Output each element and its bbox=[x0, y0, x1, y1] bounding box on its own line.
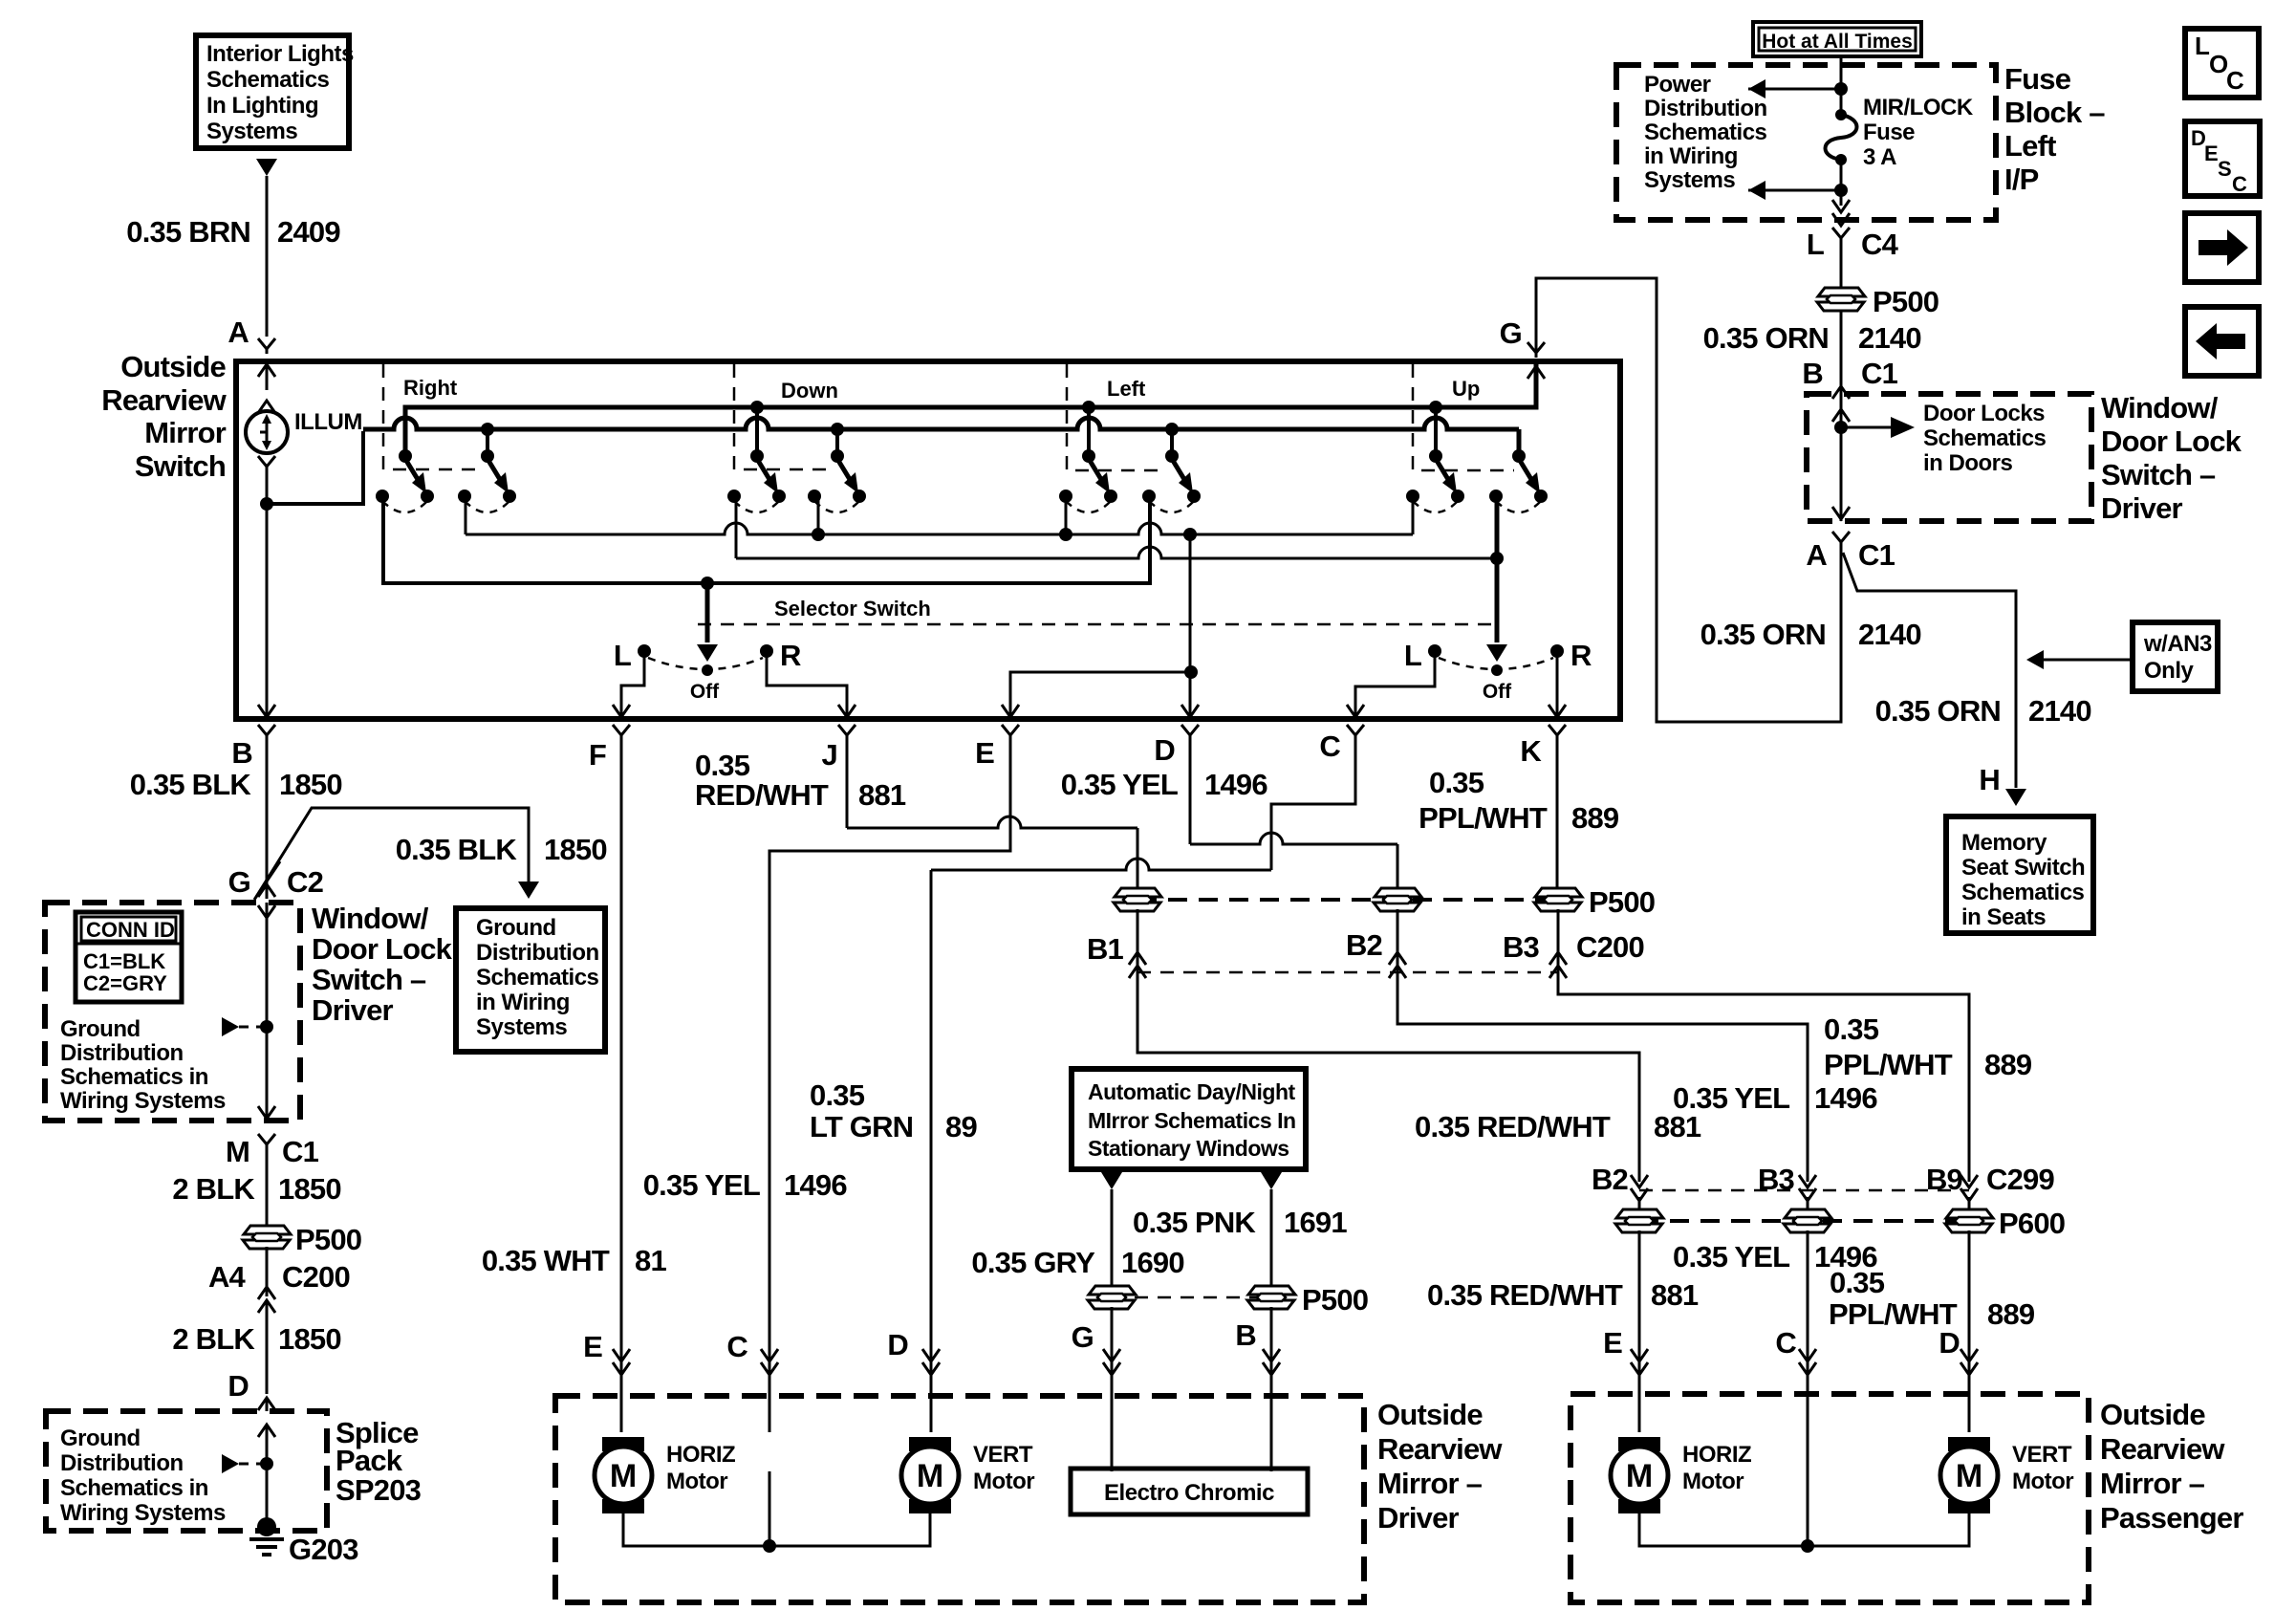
svg-text:0.35 ORN: 0.35 ORN bbox=[1703, 321, 1829, 355]
arrow from w/AN3 box to ORN wire bbox=[2044, 659, 2133, 662]
wire PPL/WHT 889: pin K straight to B3 bbox=[1556, 740, 1559, 893]
svg-text:B3: B3 bbox=[1503, 930, 1540, 964]
label Outside Rearview Mirror - Passenger bbox=[2100, 1398, 2243, 1535]
distribution arrow upper bbox=[1748, 79, 1765, 98]
label Window/ Door Lock Switch - Driver (top right) bbox=[2101, 391, 2242, 525]
svg-text:2140: 2140 bbox=[2028, 694, 2091, 728]
dashed box: Outside Rearview Mirror - Driver bbox=[555, 1396, 1364, 1602]
pin D drop wire bbox=[1189, 534, 1192, 715]
svg-text:1850: 1850 bbox=[544, 833, 607, 866]
svg-text:In Lighting: In Lighting bbox=[206, 93, 318, 119]
svg-text:Up: Up bbox=[1452, 377, 1480, 401]
svg-text:Door Lock: Door Lock bbox=[2101, 425, 2242, 458]
wire to P500 bbox=[1840, 241, 1843, 396]
svg-text:0.35 PNK: 0.35 PNK bbox=[1133, 1206, 1256, 1239]
svg-text:VERT: VERT bbox=[2012, 1442, 2072, 1468]
svg-text:in Wiring: in Wiring bbox=[476, 990, 570, 1015]
svg-text:L: L bbox=[1807, 228, 1824, 261]
inline connector P500 (fuse feed) bbox=[1817, 288, 1865, 311]
svg-text:LT GRN: LT GRN bbox=[810, 1110, 913, 1143]
svg-text:B2: B2 bbox=[1346, 928, 1382, 962]
wire: right selector L to pin C bbox=[1355, 651, 1435, 715]
svg-text:C4: C4 bbox=[1861, 228, 1899, 261]
svg-text:E: E bbox=[975, 736, 994, 770]
terminal L | C4 bbox=[1832, 228, 1850, 243]
svg-text:Distribution: Distribution bbox=[476, 940, 599, 966]
svg-text:881: 881 bbox=[1651, 1278, 1699, 1312]
svg-text:C2: C2 bbox=[287, 865, 323, 899]
svg-text:2140: 2140 bbox=[1858, 321, 1921, 355]
svg-text:Ground: Ground bbox=[476, 915, 556, 941]
svg-text:Left: Left bbox=[2004, 129, 2056, 163]
left selector contacts L / Off / R bbox=[638, 644, 651, 658]
dashed box: Outside Rearview Mirror - Passenger bbox=[1570, 1394, 2089, 1602]
wire RED/WHT 881: pin J to B1 column (hop over E wire) bbox=[846, 740, 849, 828]
dashed boundary: Up switch section bbox=[1413, 364, 1514, 470]
svg-text:M: M bbox=[610, 1458, 637, 1494]
wire 0.35 WHT 81: pin F to driver mirror HORIZ motor bbox=[620, 740, 623, 1432]
pin G entry arrow bbox=[1527, 366, 1545, 379]
dashed boundary: Down switch section bbox=[734, 364, 834, 469]
svg-text:Seat Switch: Seat Switch bbox=[1961, 855, 2085, 881]
pointer arrow to splice wire bbox=[222, 1454, 239, 1473]
reference box: Hot at All Times bbox=[1753, 22, 1921, 56]
wire RED/WHT 881: B1 to passenger E column bbox=[1137, 977, 1639, 1182]
wire: left selector L to pin F bbox=[621, 651, 644, 715]
svg-text:2 BLK: 2 BLK bbox=[172, 1172, 255, 1206]
svg-text:0.35 BLK: 0.35 BLK bbox=[130, 768, 252, 801]
junction node at lamp return bbox=[260, 497, 273, 511]
svg-text:Stationary Windows: Stationary Windows bbox=[1088, 1136, 1289, 1161]
svg-text:B1: B1 bbox=[1087, 932, 1124, 966]
label Fuse Block - Left I/P bbox=[2004, 62, 2105, 196]
svg-text:Pack: Pack bbox=[336, 1444, 403, 1477]
svg-text:0.35 ORN: 0.35 ORN bbox=[1875, 694, 2001, 728]
dashed box: Window/Door Lock Switch - Driver (top right) bbox=[1807, 394, 2091, 521]
svg-text:889: 889 bbox=[1571, 801, 1619, 835]
svg-text:Systems: Systems bbox=[476, 1014, 567, 1040]
svg-text:889: 889 bbox=[1984, 1048, 2032, 1081]
branch wire 0.35 BLK 1850 to ground distribution bbox=[256, 808, 529, 897]
svg-text:in Seats: in Seats bbox=[1961, 904, 2046, 930]
passenger mirror internal return wire bbox=[1639, 1508, 1969, 1546]
text Door Locks Schematics in Doors bbox=[1923, 401, 2047, 476]
label Outside Rearview Mirror - Driver bbox=[1377, 1398, 1503, 1535]
svg-text:81: 81 bbox=[635, 1244, 666, 1277]
reference box: Memory Seat Switch Schematics in Seats bbox=[1946, 816, 2093, 933]
svg-text:Hot at All Times: Hot at All Times bbox=[1762, 31, 1913, 53]
inline connectors P500 (mirror pair) bbox=[1112, 1296, 1271, 1299]
label Window/ Door Lock Switch - Driver bbox=[312, 902, 453, 1027]
svg-text:A: A bbox=[1806, 538, 1827, 572]
svg-text:P500: P500 bbox=[1873, 285, 1939, 318]
svg-text:Motor: Motor bbox=[2012, 1469, 2073, 1494]
wire 0.35 GRY 1690 from auto mirror box bbox=[1101, 1172, 1122, 1189]
svg-text:0.35: 0.35 bbox=[810, 1078, 865, 1112]
svg-text:3 A: 3 A bbox=[1863, 144, 1896, 170]
svg-text:J: J bbox=[822, 738, 837, 772]
svg-text:Window/: Window/ bbox=[312, 902, 429, 935]
pin G terminal on box top bbox=[1527, 342, 1545, 358]
svg-text:in Doors: in Doors bbox=[1923, 450, 2012, 476]
collector line 2 (to right selector): Down1 left contact bbox=[735, 496, 738, 558]
Outside Rearview Mirror Switch main box bbox=[236, 361, 1620, 719]
svg-text:B9: B9 bbox=[1926, 1163, 1963, 1196]
svg-text:1496: 1496 bbox=[784, 1168, 847, 1202]
svg-text:C1: C1 bbox=[282, 1135, 319, 1168]
ground symbol G203 bbox=[249, 1517, 284, 1555]
dashed boundary: Right switch section bbox=[383, 364, 483, 469]
svg-text:D: D bbox=[227, 1369, 249, 1403]
right selector wiper arrow fed from Up2 left contact bbox=[1495, 496, 1500, 642]
svg-text:2140: 2140 bbox=[1858, 618, 1921, 651]
svg-text:Schematics: Schematics bbox=[476, 965, 599, 991]
wire YEL 1496: pin D to B2 column (hop over C path) bbox=[1189, 740, 1192, 844]
svg-text:M: M bbox=[1626, 1458, 1653, 1494]
svg-text:M: M bbox=[1956, 1458, 1982, 1494]
svg-text:S: S bbox=[2218, 157, 2232, 181]
switch feed stubs from buses bbox=[757, 407, 1436, 456]
svg-text:D: D bbox=[1939, 1326, 1960, 1360]
VERT motor (passenger) bbox=[1940, 1437, 1998, 1513]
nav box left arrow bbox=[2185, 307, 2259, 376]
svg-text:Switch –: Switch – bbox=[312, 963, 426, 996]
svg-text:B: B bbox=[231, 736, 252, 770]
svg-text:Rearview: Rearview bbox=[101, 383, 227, 417]
branch arrow to door locks bbox=[1834, 421, 1848, 434]
wire 0.35 PNK 1691 from auto mirror box bbox=[1261, 1172, 1282, 1189]
svg-text:Distribution: Distribution bbox=[60, 1450, 184, 1476]
Left switch contact 1 bbox=[1059, 449, 1117, 512]
svg-text:C: C bbox=[1319, 729, 1340, 763]
svg-text:B: B bbox=[1235, 1318, 1256, 1352]
dashed box: Window/Door Lock Switch - Driver (left) bbox=[45, 903, 300, 1121]
svg-text:SP203: SP203 bbox=[336, 1473, 422, 1507]
svg-text:Door Locks: Door Locks bbox=[1923, 401, 2045, 426]
svg-text:Power: Power bbox=[1644, 72, 1711, 98]
collector line 1 (to pin D): joins left contacts of Right2, Down2, Left1, Up1 bbox=[465, 496, 467, 534]
svg-text:0.35 ORN: 0.35 ORN bbox=[1700, 618, 1826, 651]
reference box: Automatic Day/Night Mirror Schematics In Stationary Windows bbox=[1072, 1069, 1306, 1169]
wire: 0.35 BRN 2409 from interior lights box to switch pin A bbox=[256, 159, 277, 354]
selector dashed travel line bbox=[698, 623, 1491, 626]
svg-text:P500: P500 bbox=[295, 1223, 361, 1256]
svg-text:Interior Lights: Interior Lights bbox=[206, 41, 354, 67]
svg-text:Distribution: Distribution bbox=[1644, 96, 1767, 121]
wire C pin to return bbox=[769, 1471, 771, 1546]
svg-text:Schematics in: Schematics in bbox=[60, 1475, 208, 1501]
svg-text:Down: Down bbox=[781, 379, 838, 403]
wire through driver switch dashed box bbox=[258, 905, 275, 918]
svg-text:C299: C299 bbox=[1986, 1163, 2054, 1196]
Left switch contact 2 bbox=[1142, 449, 1201, 512]
svg-text:Wiring Systems: Wiring Systems bbox=[60, 1500, 226, 1526]
svg-text:B2: B2 bbox=[1592, 1163, 1628, 1196]
svg-text:C1: C1 bbox=[1858, 538, 1895, 572]
svg-text:C: C bbox=[2232, 172, 2247, 196]
svg-text:G: G bbox=[1072, 1320, 1094, 1354]
wire 2 BLK 1850 to P500 bbox=[266, 1147, 269, 1228]
svg-text:C2=GRY: C2=GRY bbox=[83, 971, 167, 995]
wires G and B into driver mirror bbox=[1112, 1307, 1271, 1471]
nav box DESC bbox=[2185, 121, 2260, 196]
svg-text:L: L bbox=[614, 639, 631, 672]
svg-text:Selector Switch: Selector Switch bbox=[774, 597, 931, 620]
svg-text:Rearview: Rearview bbox=[2100, 1432, 2225, 1466]
lower feed bus inside switch (hops over switch feeds) bbox=[363, 418, 1519, 429]
nav box LOC bbox=[2185, 29, 2259, 98]
svg-text:Motor: Motor bbox=[973, 1469, 1034, 1494]
switch pin terminals B F J E D C K bbox=[258, 725, 275, 740]
Electro Chromic element bbox=[1071, 1469, 1308, 1514]
svg-text:C: C bbox=[726, 1330, 747, 1363]
terminal M | C1 bbox=[258, 1134, 275, 1149]
label Splice Pack SP203 bbox=[336, 1416, 422, 1507]
lower bus junction nodes bbox=[481, 423, 494, 436]
nav box right arrow bbox=[2185, 213, 2259, 282]
svg-text:1850: 1850 bbox=[278, 1172, 341, 1206]
w/AN3 Only option box bbox=[2133, 622, 2218, 691]
svg-text:Only: Only bbox=[2144, 658, 2194, 684]
svg-text:Passenger: Passenger bbox=[2100, 1501, 2243, 1535]
svg-text:P600: P600 bbox=[1999, 1207, 2065, 1240]
wire 0.35 ORN 2140: A/C1 down and across to switch pin G bbox=[1536, 278, 1841, 722]
svg-text:P500: P500 bbox=[1589, 885, 1655, 919]
svg-text:MIrror Schematics In: MIrror Schematics In bbox=[1088, 1108, 1296, 1133]
svg-text:0.35 BRN: 0.35 BRN bbox=[126, 215, 250, 249]
exit arrows at fuse block edge bbox=[1832, 200, 1850, 212]
svg-text:L: L bbox=[2195, 32, 2210, 60]
svg-text:Door Lock: Door Lock bbox=[312, 932, 453, 966]
svg-text:0.35: 0.35 bbox=[1824, 1012, 1879, 1046]
svg-text:E: E bbox=[2204, 142, 2219, 165]
svg-text:Fuse: Fuse bbox=[2004, 62, 2071, 96]
svg-text:1850: 1850 bbox=[278, 1322, 341, 1356]
svg-text:Memory: Memory bbox=[1961, 830, 2047, 856]
Right switch contact 1 bbox=[376, 449, 434, 512]
svg-text:Schematics: Schematics bbox=[1923, 425, 2047, 451]
svg-text:MIR/LOCK: MIR/LOCK bbox=[1863, 95, 1974, 120]
wire below fuse bbox=[1840, 160, 1843, 206]
svg-text:C1: C1 bbox=[1861, 357, 1898, 390]
svg-text:C200: C200 bbox=[282, 1260, 350, 1294]
CONN ID table bbox=[76, 912, 182, 1002]
reference box: Interior Lights Schematics In Lighting Systems bbox=[196, 35, 354, 148]
svg-text:1690: 1690 bbox=[1121, 1246, 1184, 1279]
svg-text:Block –: Block – bbox=[2004, 96, 2105, 129]
svg-text:Mirror –: Mirror – bbox=[2100, 1467, 2205, 1500]
svg-text:VERT: VERT bbox=[973, 1442, 1033, 1468]
splice branch from A/C1 to memory seat bbox=[1843, 553, 2016, 788]
svg-text:0.35 RED/WHT: 0.35 RED/WHT bbox=[1427, 1278, 1623, 1312]
svg-text:Distribution: Distribution bbox=[60, 1040, 184, 1066]
upper feed bus inside switch bbox=[405, 364, 1536, 456]
svg-text:0.35 YEL: 0.35 YEL bbox=[1673, 1240, 1789, 1274]
Down switch contact 1 bbox=[727, 449, 786, 512]
wire from hot feed through fuse bbox=[1840, 56, 1843, 115]
svg-text:Off: Off bbox=[1483, 681, 1512, 703]
connector C299 terminals B2 B3 B9 bbox=[1639, 1189, 1969, 1192]
svg-text:M: M bbox=[917, 1458, 943, 1494]
text Power Distribution Schematics in Wiring Systems bbox=[1644, 72, 1767, 193]
wires into passenger mirror bbox=[1639, 1230, 1969, 1546]
distribution arrow lower bbox=[1748, 181, 1765, 200]
svg-text:Systems: Systems bbox=[206, 119, 297, 144]
svg-text:Driver: Driver bbox=[2101, 491, 2183, 525]
text: Ground Distribution Schematics in Wiring Systems (splice pack) bbox=[60, 1426, 226, 1526]
direction labels bbox=[403, 376, 1480, 403]
svg-text:PPL/WHT: PPL/WHT bbox=[1419, 801, 1548, 835]
Up switch contact 1 bbox=[1406, 449, 1464, 512]
svg-text:Fuse: Fuse bbox=[1863, 120, 1915, 145]
VERT motor (driver) bbox=[901, 1437, 959, 1513]
svg-text:1496: 1496 bbox=[1814, 1081, 1877, 1115]
svg-text:A4: A4 bbox=[208, 1260, 247, 1294]
inline connectors P600 row bbox=[1639, 1197, 1969, 1211]
svg-text:HORIZ: HORIZ bbox=[666, 1442, 735, 1468]
wire inside splice pack to ground bbox=[258, 1425, 275, 1437]
splice connector G / C2 bbox=[258, 884, 275, 897]
wire 2 BLK 1850 to splice pack bbox=[266, 1300, 269, 1394]
svg-text:P500: P500 bbox=[1302, 1283, 1368, 1317]
svg-text:Outside: Outside bbox=[1377, 1398, 1483, 1431]
wire: pin C to driver mirror pin D (LT GRN 89), hop over B1 column bbox=[1271, 740, 1355, 870]
collector line 3 (to left selector): Right1 and Left2 left contacts bbox=[383, 496, 1150, 583]
svg-text:0.35: 0.35 bbox=[1429, 766, 1484, 799]
HORIZ motor (driver) bbox=[595, 1437, 652, 1513]
svg-text:D: D bbox=[887, 1328, 908, 1361]
wire: lamp to pin B with junction bbox=[266, 471, 269, 715]
svg-text:1850: 1850 bbox=[279, 768, 342, 801]
svg-text:Schematics in: Schematics in bbox=[60, 1064, 208, 1090]
wire through door lock switch box bbox=[1832, 409, 1850, 422]
lamp ILLUM bbox=[246, 401, 288, 471]
wire: lamp junction feed to lower bus bbox=[267, 431, 363, 504]
svg-text:D: D bbox=[1154, 733, 1175, 767]
svg-text:1496: 1496 bbox=[1204, 768, 1267, 801]
svg-text:881: 881 bbox=[858, 778, 906, 812]
svg-text:Right: Right bbox=[403, 376, 458, 400]
svg-text:0.35 WHT: 0.35 WHT bbox=[482, 1244, 610, 1277]
driver mirror internal return wire bbox=[623, 1508, 930, 1546]
dashed box: Splice Pack SP203 bbox=[46, 1411, 327, 1531]
svg-text:R: R bbox=[1570, 639, 1592, 672]
pin A entry arrow into switch box bbox=[258, 364, 275, 377]
svg-text:w/AN3: w/AN3 bbox=[2143, 631, 2212, 657]
svg-text:PPL/WHT: PPL/WHT bbox=[1824, 1048, 1953, 1081]
svg-text:0.35: 0.35 bbox=[695, 749, 750, 782]
svg-text:1691: 1691 bbox=[1284, 1206, 1347, 1239]
svg-text:C: C bbox=[2226, 66, 2244, 95]
svg-text:89: 89 bbox=[945, 1110, 977, 1143]
left selector wiper arrow bbox=[705, 583, 710, 642]
svg-text:0.35 YEL: 0.35 YEL bbox=[1061, 768, 1178, 801]
svg-text:Mirror –: Mirror – bbox=[1377, 1467, 1483, 1500]
svg-text:Ground: Ground bbox=[60, 1426, 141, 1451]
wire PPL/WHT 889: B3 to passenger D column bbox=[1558, 977, 1969, 1182]
svg-text:C200: C200 bbox=[1576, 930, 1644, 964]
wire: pin E to driver mirror pin C (YEL 1496) bbox=[769, 740, 1010, 1432]
svg-text:B: B bbox=[1802, 357, 1823, 390]
wire: right selector R to pin K bbox=[1556, 651, 1559, 715]
svg-text:Driver: Driver bbox=[312, 993, 394, 1027]
label 0.35 BRN | 2409 bbox=[126, 215, 340, 249]
svg-text:A: A bbox=[227, 316, 249, 349]
switch name label bbox=[101, 350, 227, 483]
svg-text:Window/: Window/ bbox=[2101, 391, 2219, 425]
terminal H arrow into memory seat schematics bbox=[2005, 789, 2026, 806]
svg-text:0.35 BLK: 0.35 BLK bbox=[396, 833, 518, 866]
svg-text:Switch –: Switch – bbox=[2101, 458, 2216, 491]
svg-text:889: 889 bbox=[1987, 1297, 2035, 1331]
fuse MIR/LOCK 3A bbox=[1835, 109, 1847, 120]
svg-text:Driver: Driver bbox=[1377, 1501, 1460, 1535]
svg-text:Outside: Outside bbox=[2100, 1398, 2205, 1431]
connector C200 terminals B1 B2 B3 bbox=[1137, 909, 1558, 977]
svg-text:ILLUM: ILLUM bbox=[294, 409, 362, 435]
svg-text:Systems: Systems bbox=[1644, 167, 1735, 193]
terminal A4 | C200 bbox=[266, 1247, 269, 1296]
svg-text:E: E bbox=[583, 1330, 602, 1363]
right selector contacts L / Off / R bbox=[1428, 644, 1441, 658]
svg-text:Ground: Ground bbox=[60, 1016, 141, 1042]
svg-text:G: G bbox=[1500, 316, 1522, 350]
svg-text:RED/WHT: RED/WHT bbox=[695, 778, 829, 812]
svg-text:E: E bbox=[1603, 1326, 1622, 1360]
pointer arrow to wire bbox=[222, 1017, 239, 1036]
svg-text:Off: Off bbox=[690, 681, 720, 703]
svg-text:Schematics: Schematics bbox=[1961, 880, 2085, 905]
svg-text:2 BLK: 2 BLK bbox=[172, 1322, 255, 1356]
svg-text:H: H bbox=[1979, 763, 2000, 796]
svg-text:C: C bbox=[1775, 1326, 1796, 1360]
svg-text:Rearview: Rearview bbox=[1377, 1432, 1503, 1466]
svg-text:0.35 RED/WHT: 0.35 RED/WHT bbox=[1415, 1110, 1611, 1143]
reference box: Ground Distribution Schematics in Wiring Systems bbox=[456, 908, 605, 1052]
svg-text:0.35: 0.35 bbox=[1830, 1266, 1885, 1299]
Up switch contact 2 bbox=[1489, 449, 1548, 512]
svg-text:Schematics: Schematics bbox=[1644, 120, 1767, 145]
wire: left selector R to pin J bbox=[767, 651, 847, 715]
svg-text:M: M bbox=[226, 1135, 249, 1168]
svg-text:Schematics: Schematics bbox=[206, 67, 330, 93]
svg-text:in Wiring: in Wiring bbox=[1644, 143, 1738, 169]
svg-text:0.35 GRY: 0.35 GRY bbox=[971, 1246, 1095, 1279]
Down switch contact 2 bbox=[808, 449, 866, 512]
HORIZ motor (passenger) bbox=[1611, 1437, 1668, 1513]
text: Ground Distribution Schematics in Wiring Systems (dashed box) bbox=[60, 1016, 226, 1114]
svg-text:Left: Left bbox=[1107, 377, 1146, 401]
svg-text:Automatic Day/Night: Automatic Day/Night bbox=[1088, 1079, 1296, 1104]
svg-text:F: F bbox=[589, 738, 606, 772]
svg-text:Mirror: Mirror bbox=[144, 416, 227, 449]
svg-text:G203: G203 bbox=[289, 1533, 358, 1566]
pin E riser wire joining pin D drop bbox=[1010, 672, 1191, 715]
svg-text:0.35 YEL: 0.35 YEL bbox=[643, 1168, 760, 1202]
svg-text:HORIZ: HORIZ bbox=[1682, 1442, 1751, 1468]
svg-text:Outside: Outside bbox=[120, 350, 226, 383]
svg-text:I/P: I/P bbox=[2004, 163, 2039, 196]
svg-text:Motor: Motor bbox=[1682, 1469, 1744, 1494]
inline connector P500 (left) bbox=[243, 1226, 291, 1249]
upper bus junction nodes bbox=[750, 401, 764, 414]
svg-text:L: L bbox=[1404, 639, 1421, 672]
svg-text:K: K bbox=[1520, 734, 1542, 768]
inline connectors P500 row (driver side) bbox=[1137, 898, 1558, 902]
wire YEL 1496: B2 to passenger C column bbox=[1397, 977, 1808, 1182]
svg-text:B3: B3 bbox=[1758, 1163, 1795, 1196]
svg-text:CONN ID: CONN ID bbox=[86, 918, 175, 942]
